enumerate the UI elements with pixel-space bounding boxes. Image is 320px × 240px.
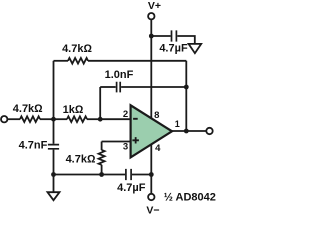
resistor R1 4.7k ohm (input) [20, 116, 40, 122]
resistor R3 4.7k ohm (feedback) [68, 58, 88, 64]
wire C1 to ground node [53, 150, 55, 175]
junction V+ node [149, 34, 154, 39]
junction node A [51, 117, 56, 122]
wire R2 to node B [87, 118, 100, 120]
wire C4 to ground right [177, 36, 195, 44]
V- terminal circle [148, 194, 154, 200]
wire R1 to node A [40, 118, 54, 120]
wire node B to op-amp pin 2 [100, 118, 130, 120]
wire pin3 corner down to R4 [101, 142, 103, 151]
wire R4 bottom [101, 165, 103, 175]
output terminal circle [206, 128, 212, 134]
svg-text:4.7kΩ: 4.7kΩ [13, 103, 43, 115]
capacitor C1 4.7nF plates [48, 145, 59, 149]
svg-text:4.7kΩ: 4.7kΩ [66, 153, 96, 165]
wire C2 left [100, 86, 116, 88]
resistor R4 4.7k ohm (vertical) [99, 150, 105, 165]
svg-text:1.0nF: 1.0nF [105, 69, 134, 81]
op-amp minus sign pin 2 [133, 118, 138, 120]
svg-text:1: 1 [175, 119, 180, 129]
capacitor C4 4.7uF plates (top) [172, 30, 177, 41]
wire R4 node to C3 [102, 174, 126, 176]
input terminal circle [1, 116, 7, 122]
wire C3 to V- line [132, 174, 151, 176]
svg-text:4.7µF: 4.7µF [117, 182, 146, 194]
wire feedback top right [88, 60, 186, 62]
svg-text:1kΩ: 1kΩ [63, 104, 84, 116]
V+ terminal circle [148, 13, 154, 19]
op-amp U1 half AD8042 [131, 105, 172, 157]
wire node B up to C2 [99, 87, 101, 119]
junction R4 bottom node [99, 172, 104, 177]
svg-text:3: 3 [123, 141, 128, 152]
ground symbol right [189, 44, 202, 53]
junction V- node [149, 172, 154, 177]
svg-text:4.7kΩ: 4.7kΩ [62, 43, 92, 55]
capacitor C2 1.0nF plates [117, 82, 121, 93]
wire op-amp pin 3 [102, 141, 131, 143]
wire node A to R2 [54, 118, 68, 120]
op-amp plus sign pin 3 [132, 137, 139, 143]
svg-text:4.7µF: 4.7µF [159, 42, 188, 54]
wire feedback right vertical to output node [185, 61, 187, 131]
wire V+ node to C4 [151, 35, 170, 37]
junction output node [184, 129, 189, 134]
resistor R2 1k ohm [67, 116, 87, 122]
svg-text:8: 8 [154, 110, 159, 121]
wire C2 right to output node [121, 86, 186, 88]
wire feedback top left [54, 60, 69, 62]
svg-text:4.7nF: 4.7nF [19, 139, 48, 151]
wire pin 4 to V- terminal [150, 143, 152, 194]
wire node A up to feedback [53, 61, 55, 119]
svg-text:4: 4 [155, 143, 161, 154]
wire output [172, 130, 206, 132]
svg-text:V+: V+ [148, 0, 161, 12]
svg-text:V−: V− [146, 205, 159, 217]
svg-text:½ AD8042: ½ AD8042 [164, 192, 216, 204]
svg-text:2: 2 [123, 109, 128, 120]
ground symbol left [48, 192, 60, 200]
wire input terminal to R1 [7, 118, 20, 120]
wire ground run bottom [54, 174, 102, 176]
wire ground node down [53, 175, 55, 193]
junction ground node left [51, 172, 56, 177]
capacitor C3 4.7uF plates (bottom) [126, 169, 131, 180]
wire node A down to C1 [53, 119, 55, 144]
junction node B [98, 117, 103, 122]
junction C2 output node [184, 85, 189, 90]
wire V+ supply vertical to pin 8 [150, 19, 152, 118]
